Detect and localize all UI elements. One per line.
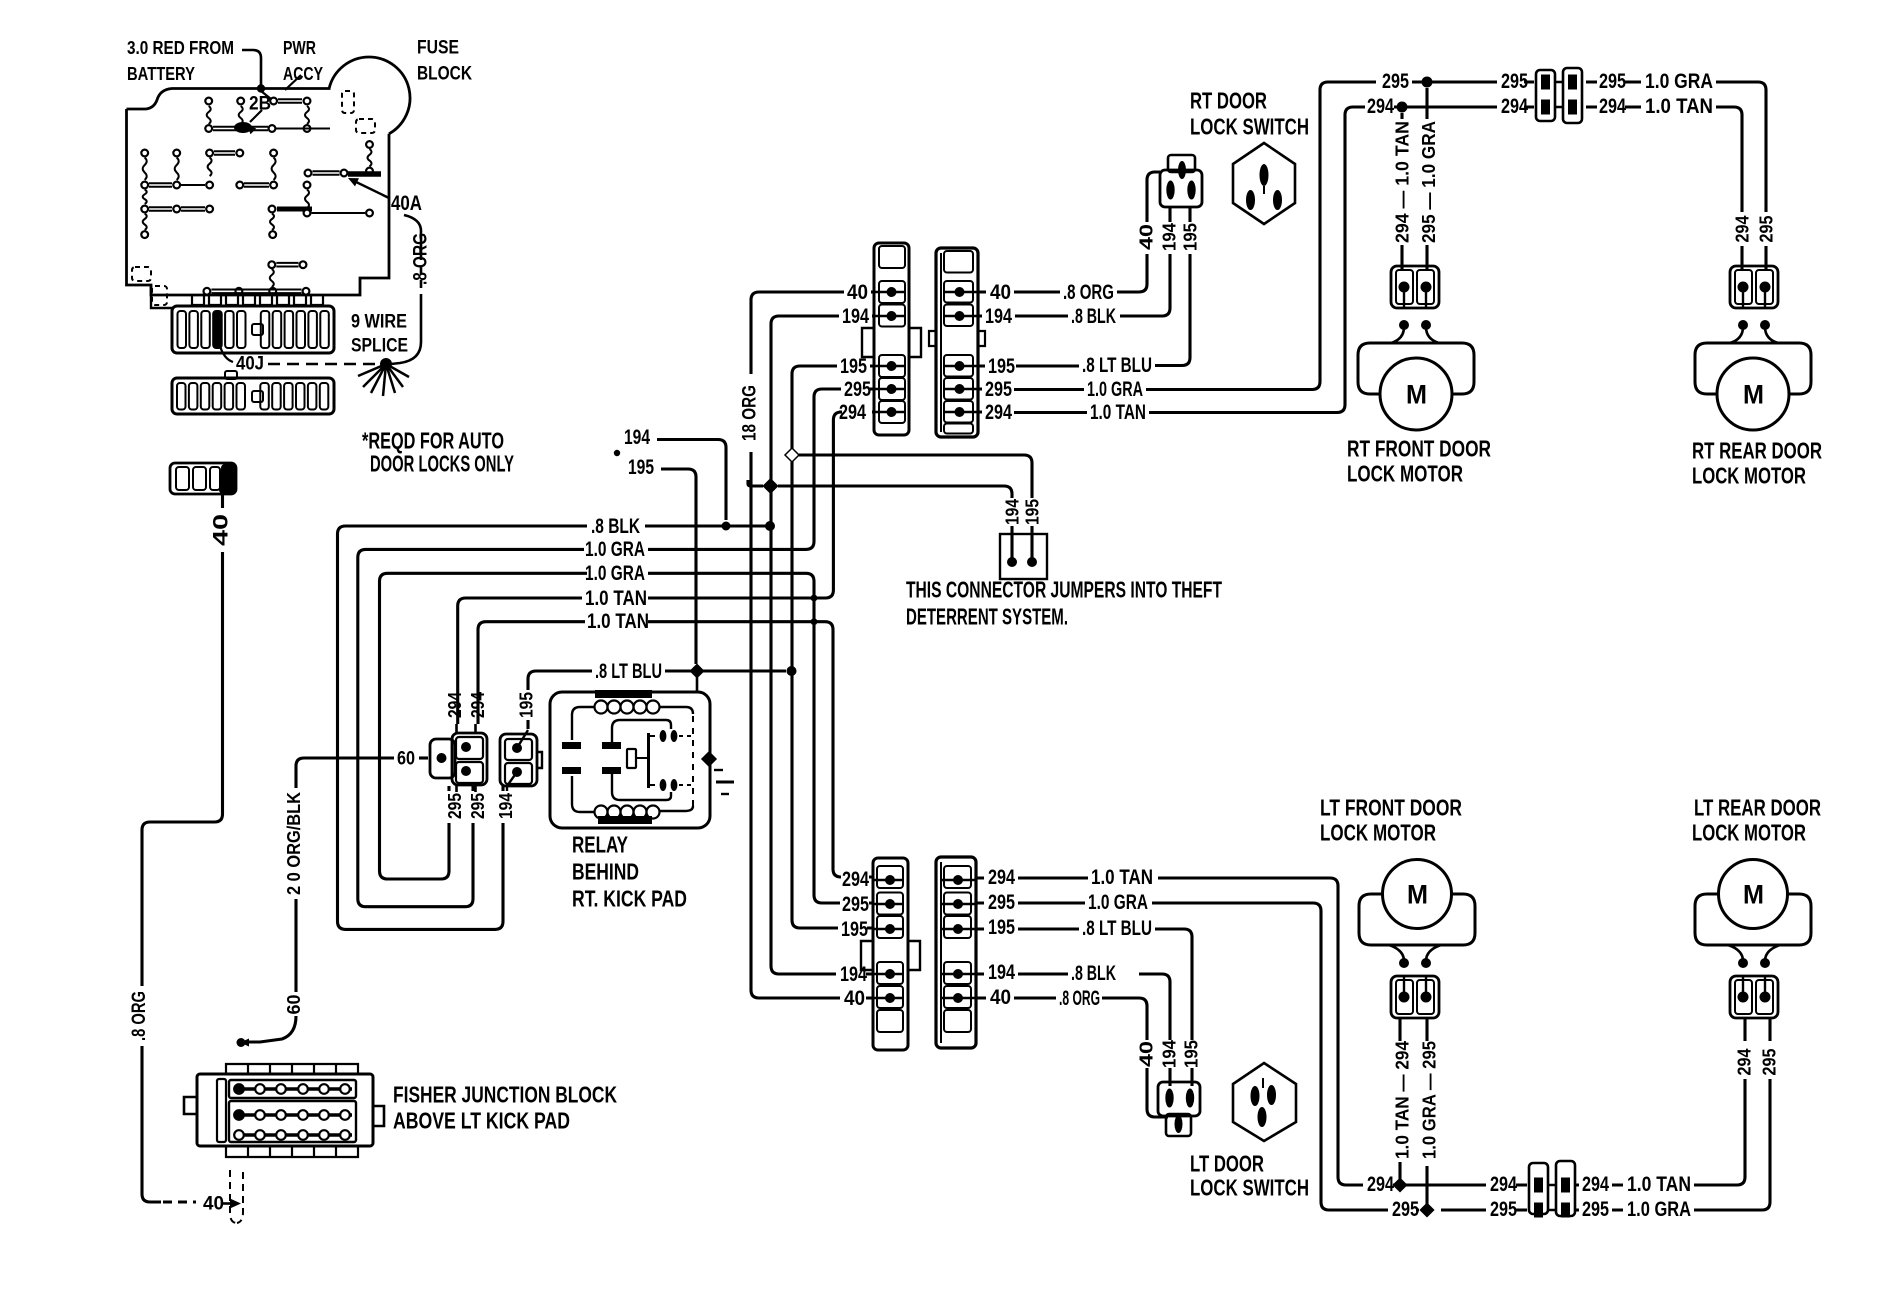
svg-text:.8 ORG: .8 ORG (129, 991, 150, 1041)
RT front door lock motor connector pins (1399, 282, 1410, 293)
svg-text:.8 LT BLU: .8 LT BLU (1082, 354, 1152, 377)
svg-text:RT DOOR: RT DOOR (1190, 88, 1267, 114)
svg-text:FISHER JUNCTION BLOCK: FISHER JUNCTION BLOCK (393, 1082, 617, 1108)
connector C3 pins (885, 875, 895, 885)
wire 294 up to LT rear motor (1743, 1018, 1746, 1041)
svg-text:40: 40 (847, 281, 868, 304)
wire leader from 3.0 RED FROM BATTERY label (242, 50, 261, 85)
wire 295 row top (1412, 80, 1641, 83)
relay connector 4-pin (430, 739, 455, 778)
fuse block terminal circles row A (205, 98, 212, 105)
svg-text:194: 194 (985, 305, 1012, 328)
wire 1.0 TAN upper arc into 294 riser (648, 412, 841, 598)
LT rear door lock motor connector (1730, 976, 1778, 1018)
fuse block terminal circles row D (141, 182, 148, 189)
RT rear motor leads (1730, 327, 1778, 343)
svg-text:60: 60 (284, 995, 304, 1015)
asterisk marker (614, 450, 620, 456)
motor LT front door lock rotor circle (1383, 860, 1452, 929)
wire 195 into LT switch connector (1190, 1068, 1193, 1086)
LT door lock switch symbol hexagon (1233, 1063, 1296, 1141)
svg-text:M: M (1407, 879, 1428, 909)
svg-text:1.0 GRA: 1.0 GRA (1645, 70, 1713, 93)
svg-text:DOOR LOCKS ONLY: DOOR LOCKS ONLY (370, 451, 514, 477)
wires 294 294 into relay connector top (457, 724, 476, 733)
svg-text:ABOVE LT KICK PAD: ABOVE LT KICK PAD (393, 1108, 570, 1134)
junction diamond theft 194 (764, 479, 778, 493)
svg-text:194: 194 (496, 793, 516, 819)
svg-text:40: 40 (210, 514, 233, 546)
svg-text:40: 40 (1137, 224, 1157, 250)
relay coil upper (595, 690, 652, 698)
svg-text:294: 294 (1501, 95, 1528, 118)
row G to H fuse squiggle (270, 269, 274, 287)
connector C2 side notches (929, 331, 985, 346)
svg-text:295: 295 (1582, 1198, 1609, 1221)
relay internal dashed link right (692, 716, 694, 806)
svg-text:.8 LT BLU: .8 LT BLU (595, 660, 662, 683)
wire .8 BLK right segment to 194 junction (645, 524, 770, 527)
heavy feed bar row E (277, 207, 312, 212)
svg-text:M: M (1743, 879, 1764, 909)
svg-text:294: 294 (1582, 1173, 1609, 1196)
svg-text:295: 295 (1392, 1198, 1419, 1221)
svg-text:LOCK MOTOR: LOCK MOTOR (1692, 463, 1806, 489)
fuse block terminal circles row F (141, 231, 148, 238)
fisher junction block body (197, 1074, 373, 1146)
wire .8 LT BLU net 195 (528, 671, 592, 690)
svg-text:194: 194 (1160, 1040, 1180, 1068)
svg-text:BATTERY: BATTERY (127, 64, 195, 84)
pin 60 of relay connector (437, 753, 447, 763)
svg-text:1.0 GRA: 1.0 GRA (585, 538, 645, 561)
svg-text:BEHIND: BEHIND (572, 859, 639, 885)
wire 294 down to RT front motor (1400, 113, 1403, 270)
LT front motor lead dots (1399, 958, 1409, 968)
svg-text:40: 40 (990, 986, 1011, 1009)
wire 294 up to LT front motor (1398, 1162, 1401, 1179)
wire 294 row bottom (1393, 1079, 1745, 1185)
wire .8 ORG from 40A to splice (404, 215, 421, 252)
svg-text:.8 BLK: .8 BLK (591, 515, 640, 538)
wire 1.0 GRA upper net 295 loop (358, 549, 584, 906)
svg-text:40: 40 (844, 987, 865, 1010)
svg-text:9 WIRE: 9 WIRE (351, 312, 407, 333)
svg-text:294: 294 (1367, 1173, 1394, 1196)
svg-text:195: 195 (841, 918, 868, 941)
motor RT front door lock rotor circle (1380, 358, 1452, 430)
connector C1 body (874, 243, 909, 435)
svg-text:295 — 1.0 GRA: 295 — 1.0 GRA (1419, 121, 1439, 243)
RT front motor leads (1391, 327, 1439, 343)
fisher junction block top comb (226, 1064, 358, 1074)
wire 294 row top (1363, 105, 1641, 108)
relay terminal bar 4 (602, 767, 621, 774)
RT rear door lock motor connector pins (1738, 282, 1749, 293)
RT switch connector pin 195 (1187, 181, 1195, 200)
svg-text:295: 295 (1760, 1049, 1780, 1076)
svg-text:294: 294 (1733, 216, 1753, 243)
svg-text:RT. KICK PAD: RT. KICK PAD (572, 886, 687, 912)
label 40J with leader from fuse (220, 346, 233, 362)
LT rear door lock motor connector pins (1738, 992, 1749, 1003)
svg-text:RT FRONT DOOR: RT FRONT DOOR (1347, 436, 1491, 462)
svg-text:SPLICE: SPLICE (351, 336, 408, 357)
wire 295 C4 to 1.0 GRA (976, 903, 1388, 1210)
relay coil wiring upper (572, 707, 594, 740)
svg-text:LOCK SWITCH: LOCK SWITCH (1190, 1175, 1309, 1201)
connector C2 cells (944, 251, 973, 273)
row C to D fuse squiggles (143, 158, 147, 181)
wire 294 C4 to 1.0 TAN (976, 878, 1363, 1185)
theft connector box (1000, 534, 1047, 579)
wire 40 riser to LT connector (751, 452, 840, 998)
wire stubs C3 labels to pins (866, 877, 873, 998)
junction diamond 294 LT front (1394, 1179, 1407, 1192)
terminal circles right column with fuse (366, 141, 373, 148)
svg-text:294: 294 (988, 866, 1015, 889)
wire .8 LT BLU right to junction (665, 669, 786, 672)
connector C4 cells (944, 866, 971, 888)
wire 295 up to LT front motor (1425, 1166, 1428, 1204)
RT rear door lock motor connector (1730, 266, 1778, 308)
svg-text:295: 295 (988, 891, 1015, 914)
row D to E fuse squiggles (143, 190, 147, 204)
fisher junction block inner bar (217, 1079, 226, 1142)
wire leader from PWR ACCY label (285, 75, 301, 90)
svg-text:1.0 TAN: 1.0 TAN (1091, 866, 1153, 889)
svg-text:40A: 40A (391, 192, 422, 215)
junction diamond 295 LT front (1421, 1204, 1434, 1217)
relay connector 2-pin (500, 734, 537, 786)
RT switch connector pin 40 (1178, 161, 1186, 179)
RT front door lock motor connector (1391, 266, 1439, 308)
LT front motor leads (1389, 945, 1441, 961)
fuse block bottom-left step edge (151, 285, 174, 308)
wire 1.0 TAN to RT rear (1716, 107, 1742, 212)
wire 194 C4 to .8 BLK (976, 974, 1170, 1040)
wire 195 C2 to .8 LT BLU (978, 254, 1190, 366)
junction dot on 195 riser (787, 666, 797, 676)
dashed cavity rectangles inside fuse block (342, 91, 354, 113)
wire 40 C4 to .8 ORG (976, 998, 1147, 1040)
wire 40 down from connector (221, 492, 224, 508)
svg-text:295: 295 (842, 893, 869, 916)
inline connector bottom half A (1529, 1163, 1548, 1214)
motor RT rear door lock rotor circle (1717, 358, 1789, 430)
relay case (550, 692, 710, 828)
fisher junction block bottom comb (226, 1146, 358, 1157)
svg-text:LOCK SWITCH: LOCK SWITCH (1190, 114, 1309, 140)
inline connector top half B (1563, 68, 1582, 123)
svg-text:2 0 ORG/BLK: 2 0 ORG/BLK (284, 792, 304, 895)
motor LT front door lock body (1359, 894, 1475, 945)
svg-text:.8 LT BLU: .8 LT BLU (1082, 917, 1152, 940)
svg-text:1.0 TAN — 294: 1.0 TAN — 294 (1393, 1041, 1413, 1159)
junction dot 295 RT front (1422, 77, 1433, 88)
connector C4 body (936, 857, 976, 1048)
relay switch wiring lower (612, 774, 671, 800)
wire 1.0 GRA lower arc down to LT 295 (648, 573, 840, 903)
wire 295 down to RT front motor (1425, 88, 1428, 270)
arrow end of 60 wire at junction block (240, 1039, 249, 1047)
LT switch hexagon pins (1251, 1086, 1260, 1106)
relay ground connection diamond (702, 752, 716, 766)
wire .8 BLK net 194 loop (338, 526, 588, 929)
fuse strip upper (172, 306, 334, 353)
relay armature (647, 733, 650, 788)
svg-text:294: 294 (1367, 95, 1394, 118)
svg-text:RELAY: RELAY (572, 832, 628, 858)
wire 194 from C1 to riser (771, 316, 874, 974)
svg-text:LT FRONT DOOR: LT FRONT DOOR (1320, 795, 1462, 821)
fuse block terminal circles row E (141, 206, 148, 213)
wire 295 down to RT rear motor (1764, 246, 1767, 270)
wire 60 2.0 ORG/BLK from relay connector (419, 756, 428, 759)
connector C1 side tabs (862, 328, 921, 357)
svg-text:BLOCK: BLOCK (417, 64, 472, 85)
svg-text:3.0 RED FROM: 3.0 RED FROM (127, 38, 234, 58)
RT door lock switch symbol hexagon (1233, 143, 1295, 224)
motor LT rear door lock body (1695, 894, 1811, 945)
bus bars row D (149, 183, 172, 187)
svg-text:195: 195 (988, 355, 1015, 378)
svg-text:195: 195 (1181, 223, 1201, 251)
RT switch hexagon pins (1260, 164, 1269, 186)
inline connector top mating pins (1555, 82, 1563, 107)
connector 40 top-left (170, 463, 236, 494)
svg-text:60: 60 (397, 749, 415, 770)
fisher junction block pin row boxes (229, 1080, 356, 1098)
svg-text:1.0 GRA: 1.0 GRA (1088, 891, 1148, 914)
connector C3 body (873, 858, 908, 1050)
svg-text:295: 295 (1757, 216, 1777, 243)
svg-text:195: 195 (840, 355, 867, 378)
svg-text:195: 195 (988, 916, 1015, 939)
wire 1.0 TAN lower net 294 (478, 622, 585, 724)
svg-text:LT DOOR: LT DOOR (1190, 1151, 1264, 1177)
svg-text:.8 ORG: .8 ORG (1063, 281, 1114, 304)
fuse strip lower center square (252, 391, 263, 402)
svg-text:M: M (1406, 379, 1427, 409)
svg-text:40: 40 (990, 281, 1011, 304)
wire 40 C2 to .8 ORG (978, 254, 1147, 292)
svg-text:294: 294 (842, 868, 869, 891)
fisher junction block right tab (373, 1106, 384, 1126)
svg-text:295: 295 (844, 378, 871, 401)
relay terminal bar 2 (602, 742, 621, 749)
svg-text:295: 295 (1382, 70, 1409, 93)
junction diamond theft 195 open (785, 448, 799, 462)
motor LT rear door lock rotor circle (1719, 860, 1788, 929)
wire 194 up to RT switch connector (1168, 206, 1171, 222)
connector C3 side tabs (861, 941, 920, 970)
svg-text:.8 ORG: .8 ORG (1059, 987, 1100, 1010)
relay terminal bar 1 (562, 742, 581, 749)
svg-text:194: 194 (842, 305, 869, 328)
svg-text:LOCK MOTOR: LOCK MOTOR (1347, 461, 1463, 487)
svg-text:FUSE: FUSE (417, 38, 459, 59)
connector C4 pins (953, 875, 963, 885)
junction diamond .8 LT BLU to relay (691, 665, 704, 678)
junction dots on .8 BLK (722, 522, 731, 531)
fuse block bottom edge teeth (192, 295, 323, 305)
arrow 40 into junction block stub (222, 1202, 232, 1205)
connector C2 body (936, 248, 978, 437)
LT switch connector pin 195 (1186, 1089, 1194, 1108)
fuse block terminal circles row B (205, 125, 212, 132)
junction dot 294 RT front (1397, 102, 1408, 113)
fuse block outline with circular boss (127, 89, 331, 110)
ground symbol (714, 769, 723, 771)
wire 1.0 GRA lower net 295 loop (380, 573, 588, 879)
svg-text:ACCY: ACCY (283, 64, 323, 84)
wire 295 C2 to 1.0 GRA riser (978, 82, 1376, 390)
wire 194 into LT switch connector (1168, 1068, 1171, 1086)
svg-text:40: 40 (1137, 1041, 1157, 1067)
motor RT rear door lock body (1695, 343, 1811, 394)
inline connector bottom mating pins (1548, 1185, 1556, 1210)
svg-text:.8 ORG: .8 ORG (410, 233, 431, 285)
wire 295 from C1 (838, 387, 874, 390)
wire 295 up to LT rear motor (1768, 1018, 1771, 1041)
svg-text:194: 194 (1003, 499, 1023, 525)
relay coil lower (598, 816, 652, 824)
svg-text:.8 BLK: .8 BLK (1071, 305, 1116, 328)
fisher junction block terminals (234, 1087, 352, 1091)
9 wire splice symbol (380, 358, 392, 370)
svg-text:.8 BLK: .8 BLK (1071, 962, 1116, 985)
svg-text:194: 194 (624, 426, 650, 449)
wire 294 from C1 (839, 410, 874, 413)
wire 40 from C1 to riser (871, 290, 874, 293)
svg-text:1.0 TAN: 1.0 TAN (1090, 401, 1146, 424)
wire 1.0 GRA to RT rear (1716, 82, 1766, 212)
fisher junction block left tab (184, 1097, 197, 1114)
LT rear motor lead dots (1738, 958, 1748, 968)
svg-text:294: 294 (839, 401, 866, 424)
bus bar row A (278, 99, 302, 103)
LT switch connector pin 40 (1175, 1115, 1183, 1133)
svg-text:294: 294 (1490, 1173, 1517, 1196)
svg-text:195: 195 (1023, 499, 1043, 525)
svg-text:LOCK MOTOR: LOCK MOTOR (1692, 820, 1806, 846)
motor RT front door lock body (1358, 343, 1474, 394)
wire 194 C2 to .8 BLK (978, 254, 1170, 316)
bus bar row B through 2B splice (213, 127, 268, 131)
wires 295 295 from relay connector bottom (457, 785, 476, 792)
svg-text:295: 295 (985, 378, 1012, 401)
svg-text:194: 194 (988, 961, 1015, 984)
wire 1.0 TAN lower arc down to LT 294 (648, 622, 841, 877)
row E to F fuse squiggles (143, 214, 147, 231)
connector C1 pins (887, 287, 897, 297)
svg-text:LT REAR DOOR: LT REAR DOOR (1694, 795, 1821, 821)
relay switch wiring upper (612, 720, 671, 742)
wire theft 195 branch (799, 455, 1032, 498)
svg-text:LOCK MOTOR: LOCK MOTOR (1320, 820, 1436, 846)
svg-text:THIS CONNECTOR JUMPERS INTO TH: THIS CONNECTOR JUMPERS INTO THEFT (906, 577, 1222, 603)
LT front door lock motor connector (1391, 976, 1439, 1018)
svg-text:RT REAR DOOR: RT REAR DOOR (1692, 438, 1822, 464)
wire 295 row bottom (1416, 1079, 1770, 1210)
relay coil wiring lower (572, 776, 594, 812)
svg-text:295: 295 (468, 793, 488, 819)
svg-text:1.0 GRA: 1.0 GRA (1087, 378, 1143, 401)
RT switch connector pin 194 (1166, 181, 1174, 200)
wire 195 into relay 2-pin connector (517, 730, 528, 748)
fuse strip lower (172, 378, 334, 414)
wire 195 C4 to .8 LT BLU (976, 929, 1192, 1040)
RT front motor lead dots (1399, 320, 1409, 330)
svg-text:1.0 TAN: 1.0 TAN (1627, 1173, 1691, 1196)
connector C3 cells (877, 866, 903, 888)
svg-text:295: 295 (1501, 70, 1528, 93)
svg-text:194: 194 (840, 963, 867, 986)
svg-text:295: 295 (1599, 70, 1626, 93)
crossing blobs on 295 riser (811, 595, 818, 602)
relay contact lower (660, 779, 667, 791)
RT door lock switch connector (1168, 155, 1195, 172)
fuse block terminal circles row G (268, 261, 275, 268)
wire 195 up to RT switch connector (1188, 206, 1191, 222)
LT front door lock motor connector pins (1399, 992, 1410, 1003)
svg-text:294: 294 (1599, 95, 1626, 118)
relay terminal bar 3 (562, 767, 581, 774)
svg-text:1.0 TAN: 1.0 TAN (587, 610, 649, 633)
svg-text:194: 194 (1160, 223, 1180, 251)
svg-text:294: 294 (1735, 1049, 1755, 1076)
connector C1 cells (879, 246, 905, 268)
fuse 2B row A squiggles (207, 106, 211, 124)
svg-text:195: 195 (628, 456, 654, 479)
svg-text:1.0 TAN: 1.0 TAN (1645, 95, 1713, 118)
wire .8 ORG continues to 40 arrow (142, 1046, 161, 1202)
splice 2B blob (234, 122, 252, 133)
svg-text:DETERRENT SYSTEM.: DETERRENT SYSTEM. (906, 604, 1068, 630)
svg-text:1.0 GRA: 1.0 GRA (1627, 1198, 1691, 1221)
theft connector pins (1007, 557, 1017, 567)
svg-text:294 — 1.0 TAN: 294 — 1.0 TAN (1393, 121, 1413, 243)
relay contact upper (660, 730, 667, 742)
LT switch connector pin 194 (1165, 1089, 1173, 1108)
svg-text:40J: 40J (236, 354, 264, 375)
wire 294 down to RT rear motor (1740, 246, 1743, 270)
dashed cavity below junction block (230, 1170, 236, 1223)
relay actuator (627, 749, 636, 768)
bus bar row H (211, 290, 301, 294)
svg-text:294: 294 (985, 401, 1012, 424)
svg-text:294: 294 (445, 692, 465, 718)
fuse block terminal circles row H (204, 288, 211, 295)
wire 1.0 GRA upper arc into 295 riser (648, 389, 838, 549)
wire theft 194 branch (748, 480, 763, 486)
wire 40 up to RT switch connector (1147, 172, 1160, 222)
inline connector top half A (1536, 70, 1555, 121)
svg-text:1.0 TAN: 1.0 TAN (585, 587, 647, 610)
fuse strip upper center square (252, 324, 263, 335)
LT door lock switch connector (1158, 1082, 1200, 1116)
wire 194 from relay 2-pin connector (507, 772, 517, 791)
inline connector bottom half B (1556, 1161, 1575, 1216)
terminal circles 40A feed row (305, 170, 312, 177)
connector C2 pins (955, 287, 965, 297)
svg-text:18 ORG: 18 ORG (739, 385, 760, 441)
svg-text:195: 195 (517, 692, 537, 718)
wire 40J dashed run to splice (268, 363, 378, 366)
LT rear motor leads (1728, 945, 1780, 961)
svg-text:M: M (1743, 379, 1764, 409)
